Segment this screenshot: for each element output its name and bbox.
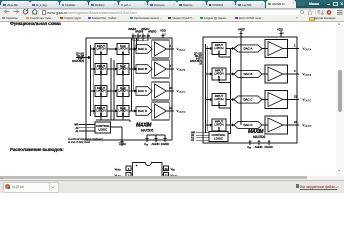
svg-text:VREF: VREF xyxy=(238,28,245,32)
svg-text:VDD: VDD xyxy=(160,29,166,33)
svg-text:13: 13 xyxy=(139,36,142,38)
input latch A (MAX505) xyxy=(95,44,107,55)
window close xyxy=(340,2,344,6)
svg-text:DAC A: DAC A xyxy=(244,47,253,51)
svg-text:VDD: VDD xyxy=(277,28,283,32)
content xyxy=(0,22,344,177)
svg-text:1: 1 xyxy=(283,32,285,34)
svg-text:DAC C: DAC C xyxy=(138,89,147,93)
VREF distribution lines (MAX505) xyxy=(132,38,137,111)
svg-text:MAX505: MAX505 xyxy=(141,129,153,133)
control bus verticals (MAX505) xyxy=(96,55,130,123)
wire DAC B to op-amp (MAX506) xyxy=(262,73,268,75)
horizontal scrollbar xyxy=(0,176,344,180)
data bus entry D0-D7 (MAX505) xyxy=(76,56,90,60)
wire bus branch to input latch (MAX506) xyxy=(206,124,213,126)
wire DAC D to op-amp (MAX506) xyxy=(262,124,268,126)
label D0-D7 data bus note (MAX506) xyxy=(190,52,203,65)
svg-text:OUTA: OUTA xyxy=(116,169,122,172)
svg-text:2: 2 xyxy=(294,45,296,48)
DAC D (MAX506) xyxy=(234,121,262,128)
wire op-amp C output to pin 23 (MAX506) xyxy=(283,96,299,102)
DAC A (MAX505) xyxy=(136,45,152,54)
VSS AGND DGND pins (MAX505) xyxy=(146,135,167,142)
input latch B (MAX505) xyxy=(95,64,107,75)
op-amp buffer B with feedback (MAX505) xyxy=(152,60,169,78)
dac latch C (MAX505) xyxy=(117,86,129,97)
vertical scrollbar xyxy=(336,22,344,177)
output label VOUTC xyxy=(177,89,186,94)
DAC C (MAX506) xyxy=(234,96,262,103)
svg-text:1: 1 xyxy=(165,33,167,35)
heading: Расположение выводов xyxy=(10,147,64,152)
svg-text:2: 2 xyxy=(170,45,172,48)
op-amp buffer D with feedback (MAX505) xyxy=(152,102,169,120)
wire op-amp A output to pin 2 xyxy=(167,45,175,51)
IC outline U1 MAX505 xyxy=(86,38,172,140)
control logic block (MAX505) xyxy=(95,122,111,133)
pin 2 VOUTB xyxy=(115,173,133,179)
svg-text:16: 16 xyxy=(199,62,202,65)
clock bus vertical (MAX506) xyxy=(219,49,231,135)
wire bus branch to input latch (MAX506) xyxy=(206,48,213,50)
wire DAC C to op-amp (MAX506) xyxy=(262,99,268,101)
svg-text:OUTC: OUTC xyxy=(179,91,186,94)
DAC C (MAX505) xyxy=(136,87,152,96)
wire input latch D to dac latch D xyxy=(107,110,117,112)
pin 1 VOUTA xyxy=(115,166,133,172)
svg-text:DATA BUS: DATA BUS xyxy=(72,60,84,63)
wire dac latch C to DAC C xyxy=(129,90,136,92)
bookmarks bar xyxy=(0,15,344,22)
tab strip lower band xyxy=(0,5,265,9)
svg-text:AGND: AGND xyxy=(255,145,263,149)
svg-text:DAC C: DAC C xyxy=(244,98,253,102)
svg-text:MAX506: MAX506 xyxy=(253,135,265,139)
svg-text:DAC B: DAC B xyxy=(138,67,147,71)
profile name xyxy=(304,2,324,6)
svg-text:DD: DD xyxy=(172,170,175,172)
active tab xyxy=(266,0,296,8)
wire dac latch B to DAC B xyxy=(129,68,136,70)
wire input latch A to DAC A (MAX506) xyxy=(226,48,234,50)
wire op-amp B output to pin 3 xyxy=(167,65,175,71)
control input pins WR A0 A1 (MAX505) xyxy=(79,123,95,132)
toolbar xyxy=(0,8,344,15)
DAC D (MAX505) xyxy=(136,107,152,116)
svg-text:SS: SS xyxy=(249,148,252,150)
pin 23 VOUTD xyxy=(162,173,178,179)
svg-text:3: 3 xyxy=(170,65,172,68)
output label VOUTA (MAX506) xyxy=(303,47,312,52)
svg-text:A1: A1 xyxy=(75,130,79,133)
wire op-amp D output to pin 22 (MAX506) xyxy=(283,121,299,127)
DIP package outline (pinout) xyxy=(133,163,163,179)
wire bus branch to input latch xyxy=(91,110,96,112)
wire op-amp C output to pin 23 xyxy=(167,87,175,93)
svg-text:3: 3 xyxy=(294,70,296,73)
labels VREFA VREFB VREFC VREFD xyxy=(128,28,157,34)
VDD pin (MAX506) xyxy=(277,28,285,37)
svg-text:OUTD: OUTD xyxy=(305,125,312,128)
svg-text:VREFD: VREFD xyxy=(148,31,157,34)
svg-text:11: 11 xyxy=(144,36,147,38)
wire input latch C to DAC C (MAX506) xyxy=(226,99,234,101)
svg-text:OUTA: OUTA xyxy=(179,49,186,52)
svg-text:15: 15 xyxy=(134,36,137,38)
control logic block (MAX506) xyxy=(209,132,228,142)
wire bus branch to input latch (MAX506) xyxy=(206,99,213,101)
wire dac latch A to DAC A xyxy=(129,48,136,50)
op-amp buffer C with feedback (MAX505) xyxy=(152,82,169,100)
op-amp buffer B with feedback (MAX506) xyxy=(265,65,288,83)
dac latch B (MAX505) xyxy=(117,64,129,75)
wire dac latch D to DAC D xyxy=(129,110,136,112)
wire bus branch to input latch (MAX506) xyxy=(206,73,213,75)
LDAC pin (MAX505) xyxy=(111,127,127,146)
op-amp buffer D with feedback (MAX506) xyxy=(265,116,288,134)
svg-text:9: 9 xyxy=(149,36,151,38)
browser frame (teal) xyxy=(0,0,344,8)
wire op-amp A output to pin 2 (MAX506) xyxy=(283,45,299,51)
new tab button xyxy=(296,2,305,6)
caption functional diagrams continued xyxy=(68,138,103,144)
svg-text:OUTB: OUTB xyxy=(179,69,186,72)
VREF pins A-D (MAX505) xyxy=(132,34,150,41)
IC outline U2 MAX506 xyxy=(203,37,297,143)
input latch C (MAX505) xyxy=(95,86,107,97)
DAC A (MAX506) xyxy=(234,45,262,52)
svg-text:at end of data sheet.: at end of data sheet. xyxy=(68,141,91,144)
svg-text:DAC D: DAC D xyxy=(138,109,147,113)
svg-text:24: 24 xyxy=(164,167,168,171)
op-amp buffer A with feedback (MAX505) xyxy=(152,40,169,58)
wire input latch B to dac latch B xyxy=(107,68,117,70)
wire bus branch to input latch xyxy=(91,90,96,92)
output label VOUTC (MAX506) xyxy=(303,98,312,103)
svg-text:OUTB: OUTB xyxy=(305,74,312,77)
svg-text:VREFB: VREFB xyxy=(135,31,144,34)
svg-text:SS: SS xyxy=(146,145,149,147)
window minimize xyxy=(327,3,330,6)
wire op-amp D output to pin 22 xyxy=(167,107,175,113)
svg-text:DAC B: DAC B xyxy=(244,72,253,76)
svg-text:OUTD: OUTD xyxy=(179,111,186,114)
output label VOUTA xyxy=(177,47,186,52)
wire op-amp B output to pin 3 (MAX506) xyxy=(283,70,299,76)
wire input latch D to DAC D (MAX506) xyxy=(226,124,234,126)
label D0-D7 8-bit data bus (MAX505) xyxy=(72,52,85,63)
svg-text:DGND: DGND xyxy=(161,142,169,146)
output label VOUTD xyxy=(177,109,186,114)
VREF line (MAX506) xyxy=(240,31,243,125)
downloads bar xyxy=(0,180,344,194)
svg-text:OUTC: OUTC xyxy=(305,99,312,102)
input latch D (MAX506) xyxy=(212,119,226,131)
VDD pin (MAX505) xyxy=(160,29,167,38)
wire input latch A to dac latch A xyxy=(107,48,117,50)
wire input latch B to DAC B (MAX506) xyxy=(226,73,234,75)
DAC B (MAX505) xyxy=(136,65,152,74)
VSS AGND DGND pins (MAX506) xyxy=(249,140,271,145)
wire DAC A to op-amp (MAX506) xyxy=(262,48,268,50)
svg-text:DGND: DGND xyxy=(265,145,273,149)
output label VOUTB (MAX506) xyxy=(303,72,312,77)
input latch A (MAX506) xyxy=(212,43,226,55)
wire bus branch to input latch xyxy=(91,68,96,70)
dac latch D (MAX505) xyxy=(117,106,129,117)
svg-text:LOGIC: LOGIC xyxy=(214,136,223,140)
data bus lines (MAX505) xyxy=(91,45,94,116)
wire input latch C to dac latch C xyxy=(107,90,117,92)
input latch D (MAX505) xyxy=(95,106,107,117)
heading: Функциональная схема xyxy=(10,21,61,26)
dac latch A (MAX505) xyxy=(117,44,129,55)
svg-text:AGND: AGND xyxy=(152,142,160,146)
pin 24 VDD xyxy=(162,166,176,172)
op-amp buffer C with feedback (MAX506) xyxy=(265,91,288,109)
tabs xyxy=(0,0,344,1)
output label VOUTD (MAX506) xyxy=(303,123,312,128)
svg-text:LOGIC: LOGIC xyxy=(98,128,107,132)
svg-text:DAC D: DAC D xyxy=(244,123,253,127)
svg-text:OUTA: OUTA xyxy=(305,48,312,51)
wire bus branch to input latch xyxy=(91,48,96,50)
window restore xyxy=(333,2,338,6)
DAC B (MAX506) xyxy=(234,70,262,77)
input latch C (MAX506) xyxy=(212,94,226,106)
output label VOUTB xyxy=(177,67,186,72)
svg-text:DAC A: DAC A xyxy=(138,47,147,51)
op-amp buffer A with feedback (MAX506) xyxy=(265,40,288,58)
input latch B (MAX506) xyxy=(212,68,226,80)
control input pins WR A0 A1 (MAX506) xyxy=(196,131,209,141)
data bus lines (MAX506) xyxy=(206,44,208,133)
svg-text:A2: A2 xyxy=(191,139,195,142)
